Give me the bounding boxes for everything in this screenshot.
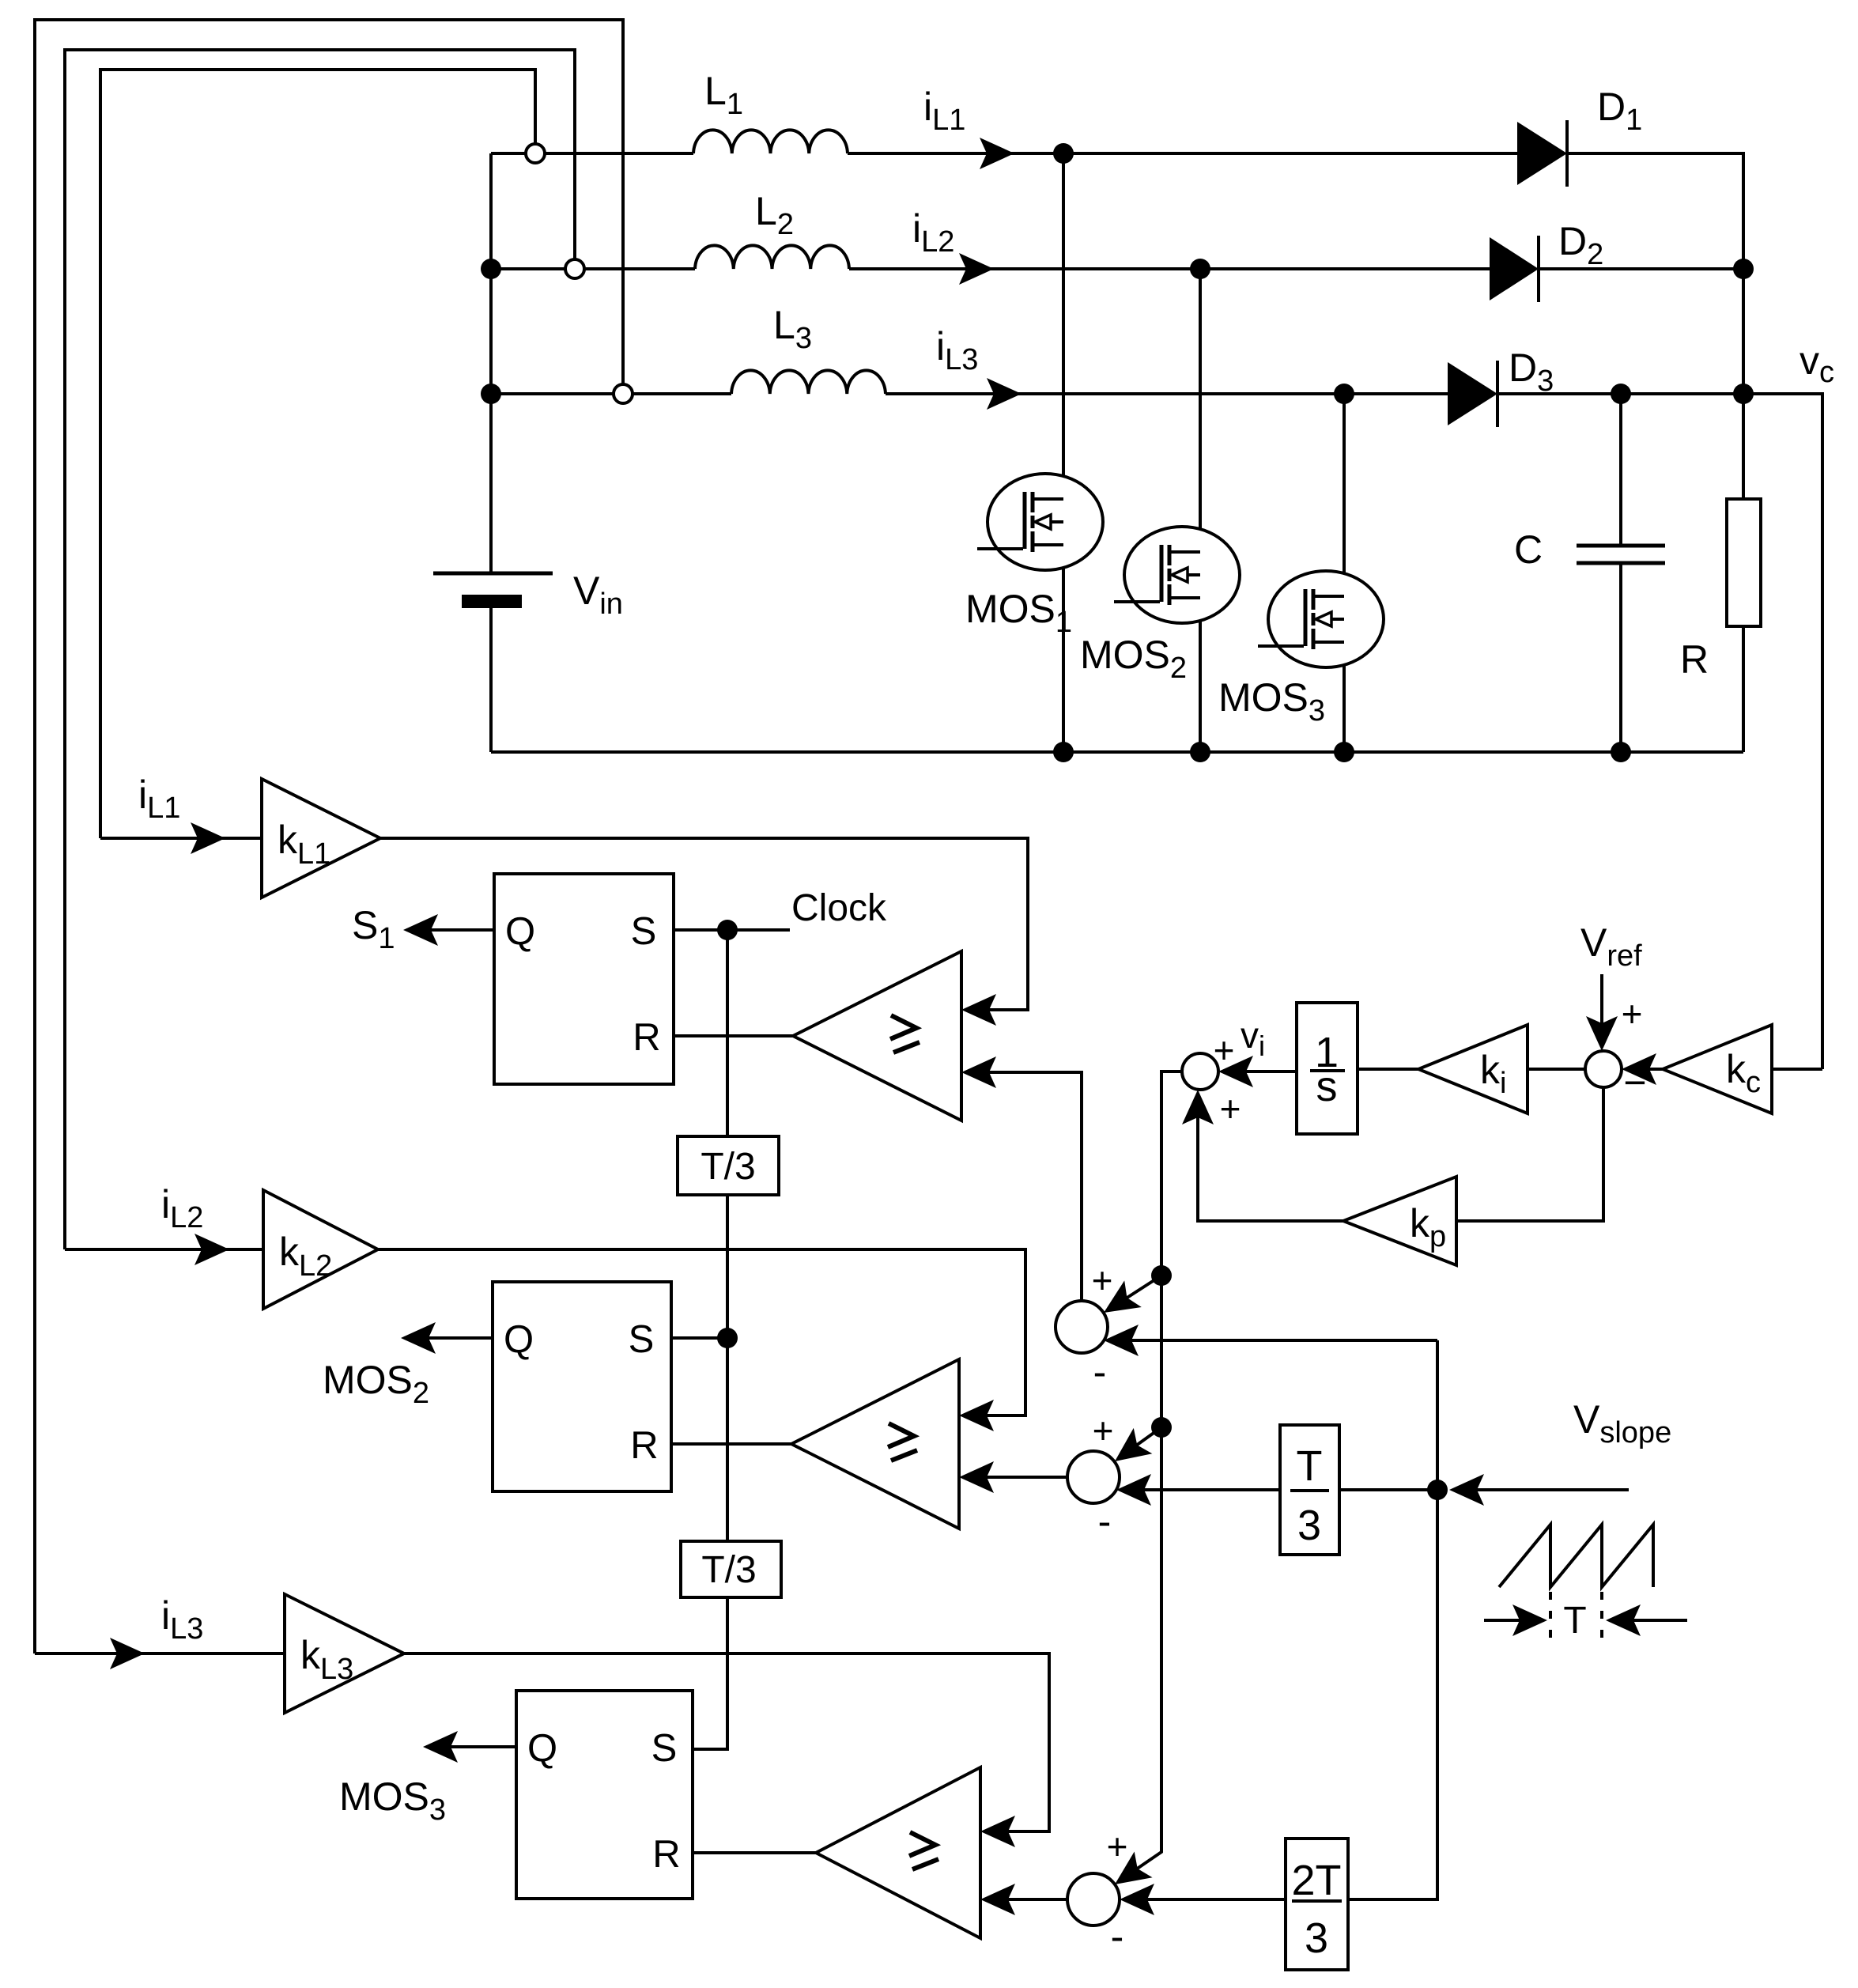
arrow iL2 (959, 253, 994, 285)
svg-text:3: 3 (1305, 1914, 1328, 1962)
wire kp output up to vi sum (1198, 1096, 1343, 1221)
svg-text:-: - (1098, 1499, 1112, 1544)
diode D2 (1490, 236, 1539, 302)
node D3 row / output rail junction (1733, 384, 1754, 404)
svg-text:-: - (1111, 1914, 1124, 1959)
wire input rail left vertical (489, 153, 493, 573)
node MOS3 bottom (1334, 742, 1354, 762)
wire clock chain vertical to T/3 (726, 930, 729, 1136)
node C bottom (1611, 742, 1631, 762)
svg-text:R: R (652, 1833, 680, 1876)
wire sumC output to comp3 lower input (987, 1898, 1067, 1901)
svg-text:Q: Q (504, 1318, 534, 1361)
arrow latch2 Q output (401, 1322, 436, 1354)
wire sumB output to comp2 lower input (965, 1476, 1067, 1479)
wire D1 to output rail (1567, 153, 1743, 394)
arrow kp into vi sum (1182, 1090, 1214, 1124)
latch 3 box (516, 1691, 693, 1899)
svg-text:R: R (630, 1424, 658, 1467)
svg-text:C: C (1514, 527, 1543, 572)
wire T/3 to latch2 S (726, 1195, 729, 1541)
node latch2 S junction (717, 1328, 738, 1348)
summing junction B (1067, 1451, 1120, 1503)
node phase3 / MOS3 junction (1334, 384, 1354, 404)
wire phase 2 line (491, 267, 695, 270)
wire latch2 S stub (671, 1336, 727, 1340)
svg-text:T: T (1297, 1442, 1323, 1490)
gain kL3 (285, 1594, 404, 1713)
arrow Vslope into junction (1449, 1474, 1484, 1506)
arrow latch3 Q output (423, 1731, 458, 1763)
arrow kc into sum2 (1622, 1053, 1656, 1085)
wire Vslope stub (1454, 1488, 1629, 1491)
svg-text:+: + (1107, 1826, 1128, 1867)
svg-text:T/3: T/3 (701, 1549, 756, 1591)
wire kL1 output to comparator 1 upper input (380, 838, 1028, 1010)
comparator 3 (816, 1767, 980, 1938)
wire iL1 sense loop (outer-left inner loop to kL1 row) (100, 70, 535, 838)
svg-text:Q: Q (505, 910, 535, 953)
summing junction vi (1182, 1053, 1218, 1090)
wire vi diag to sumB (1125, 1427, 1161, 1453)
svg-text:Clock: Clock (791, 887, 887, 929)
resistor R (1727, 394, 1761, 752)
arrow comp2 upper input (959, 1400, 994, 1431)
latch 1 box (494, 874, 674, 1084)
arrow into kL2 (194, 1234, 229, 1265)
wire slope junction to T/3 third (1339, 1488, 1437, 1491)
wire iL3 into kL3 (35, 1652, 285, 1655)
wire kc output into sum2 (1628, 1068, 1663, 1071)
sawtooth dashed marker right (1600, 1592, 1603, 1649)
wire bottom rail (491, 750, 1743, 754)
wire sumA minus input from slope rail (1110, 1339, 1437, 1342)
wire iL2 sense loop (65, 50, 575, 1249)
arrow comp1 upper input (961, 994, 996, 1026)
wire D2 to output rail (1539, 267, 1743, 270)
summing junction A (1056, 1301, 1108, 1353)
node phase1 / MOS1 junction (1053, 143, 1074, 164)
node input rail / L2 junction (481, 259, 501, 279)
latch 2 box (493, 1282, 671, 1491)
comparator 2 (791, 1359, 959, 1529)
wire slope rail vertical (1348, 1340, 1437, 1899)
label T over 3 (1290, 1442, 1329, 1549)
svg-text:S: S (651, 1727, 678, 1770)
wire sum2 to ki (1528, 1068, 1585, 1071)
arrow S1 (403, 914, 438, 946)
wire comp2 output to latch2 R (671, 1442, 791, 1446)
arrow vi into sumB (1105, 1428, 1152, 1474)
sawtooth waveform (1499, 1525, 1653, 1587)
sensor tap circle phase3 (614, 384, 633, 403)
node C top junction (1611, 384, 1631, 404)
svg-text:R: R (633, 1016, 660, 1059)
arrow comp1 lower input (961, 1056, 996, 1088)
gain ki (1418, 1025, 1528, 1113)
transistor MOS1 (977, 153, 1103, 752)
label comparator 3 gte (909, 1832, 938, 1869)
arrow sumA minus input (1104, 1325, 1139, 1356)
node input rail / L3 junction (481, 384, 501, 404)
wire phase 3 line (491, 392, 731, 395)
svg-text:R: R (1680, 637, 1709, 682)
wire iL3 sense loop (35, 20, 623, 1654)
wire L2 to D2 (849, 267, 1490, 270)
inductor L1 (693, 130, 848, 153)
wire iL1 into kL1 (100, 837, 262, 840)
wire latch1 S to clock (674, 928, 790, 932)
wire comp1 lower input from sum A (968, 1072, 1082, 1301)
label comparator 2 gte (888, 1423, 917, 1461)
wire kL2 output to comparator 2 upper input (378, 1249, 1025, 1415)
wire vi feed vertical (1119, 1071, 1182, 1881)
wire sum2 down to kp (1456, 1087, 1603, 1221)
summing junction C (1067, 1873, 1120, 1926)
arrow sumC minus input (1120, 1884, 1154, 1915)
svg-text:T: T (1563, 1600, 1586, 1642)
svg-text:-: - (1093, 1350, 1107, 1394)
sensor tap circle phase2 (565, 259, 584, 278)
arrow comp2 lower input (959, 1461, 994, 1493)
period arrow right (1612, 1619, 1687, 1622)
arrow into kL1 (191, 822, 225, 854)
inductor L3 (731, 370, 886, 394)
wire D3 to vc corner (1497, 394, 1822, 1069)
wire sumB minus input from T/3 third (1123, 1488, 1280, 1491)
transistor MOS2 (1114, 269, 1240, 752)
svg-text:+: + (1622, 993, 1643, 1034)
node D2 / output rail junction (1733, 259, 1754, 279)
svg-text:+: + (1092, 1260, 1113, 1301)
wire ki output to integrator (1358, 1068, 1418, 1071)
inductor L2 (695, 245, 849, 269)
wire Vref into sum2 (1600, 974, 1603, 1045)
summing junction 2 (voltage error) (1585, 1051, 1622, 1087)
battery Vin (433, 573, 553, 752)
arrow iL1 (980, 138, 1014, 169)
delay block T/3 first (678, 1136, 779, 1195)
arrow iL3 (987, 378, 1022, 410)
wire comp3 output to latch3 R (693, 1851, 816, 1854)
gain kL1 (262, 779, 380, 898)
label 2T over 3 (1291, 1857, 1342, 1962)
svg-text:2T: 2T (1291, 1857, 1341, 1904)
wire T/3 second to latch3 S (693, 1597, 727, 1749)
arrow sumB minus input (1116, 1474, 1151, 1506)
wire vc into kc (1772, 1068, 1822, 1071)
arrow into kL3 (110, 1638, 145, 1669)
transistor MOS3 (1258, 394, 1384, 752)
delay block T/3 third (T over 3) (1280, 1425, 1339, 1555)
period arrow left (1484, 1619, 1541, 1622)
arrow integrator into vi sum (1218, 1056, 1253, 1087)
arrow Vref into sum2 (1586, 1016, 1618, 1051)
arrow comp3 upper input (980, 1816, 1015, 1847)
svg-text:S: S (629, 1318, 655, 1361)
node vi to sumA (1151, 1265, 1172, 1286)
wire sumC minus input from 2T/3 (1126, 1898, 1286, 1901)
svg-text:S: S (631, 910, 657, 953)
wire L3 to D3 (886, 392, 1448, 395)
svg-text:Q: Q (527, 1727, 557, 1770)
sensor tap circle phase1 (526, 144, 545, 163)
sawtooth dashed marker left (1549, 1592, 1552, 1649)
wire latch3 Q output (426, 1745, 516, 1748)
wire kL3 output to comparator 3 upper input (404, 1654, 1049, 1831)
wire vi diag to sumA (1115, 1276, 1161, 1306)
node MOS1 bottom (1053, 742, 1074, 762)
svg-text:+: + (1220, 1088, 1241, 1129)
wire iL2 into kL2 (65, 1248, 263, 1251)
integrator 1/s box (1297, 1003, 1358, 1134)
node vi to sumB (1151, 1417, 1172, 1438)
arrow vi into sumA (1095, 1280, 1142, 1325)
capacitor C (1577, 394, 1665, 752)
node clock junction (717, 920, 738, 940)
arrow vi into sumC (1106, 1851, 1153, 1897)
svg-text:+: + (1093, 1410, 1114, 1451)
svg-text:s: s (1316, 1063, 1338, 1110)
gain kc (1663, 1025, 1772, 1113)
wire latch2 Q output (404, 1336, 493, 1340)
node MOS2 bottom (1190, 742, 1210, 762)
gain kp (1343, 1177, 1456, 1265)
wire phase 1 line (491, 152, 693, 155)
node phase2 / MOS2 junction (1190, 259, 1210, 279)
wire integrator output to vi sum (1225, 1070, 1297, 1073)
label comparator 1 gte (890, 1015, 920, 1053)
wire latch1 Q output S1 (406, 928, 494, 932)
diode D3 (1448, 361, 1497, 427)
gain kL2 (263, 1190, 378, 1309)
svg-text:3: 3 (1297, 1502, 1321, 1549)
wire L1 to D1 (848, 152, 1517, 155)
comparator 1 (793, 951, 961, 1121)
arrow comp3 lower input (980, 1884, 1015, 1915)
delay block 2T/3 (1286, 1839, 1348, 1970)
diode D1 (1517, 120, 1567, 187)
wire comp1 output to latch1 R (674, 1034, 793, 1037)
svg-text:T/3: T/3 (701, 1146, 755, 1188)
label integrator 1 over s (1310, 1029, 1345, 1110)
svg-text:+: + (1214, 1030, 1235, 1071)
node slope junction (1427, 1480, 1448, 1500)
delay block T/3 second (681, 1541, 781, 1597)
